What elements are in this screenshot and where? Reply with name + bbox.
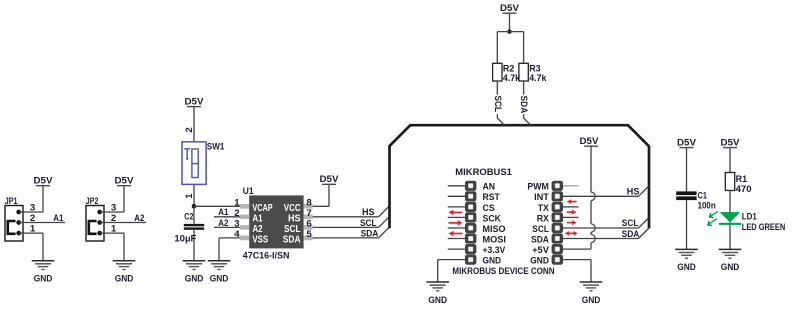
svg-text:D5V: D5V <box>185 96 205 107</box>
svg-text:A1: A1 <box>252 214 263 225</box>
svg-text:HS: HS <box>362 207 375 218</box>
svg-text:SDA: SDA <box>531 234 549 245</box>
svg-text:GND: GND <box>677 262 696 273</box>
svg-text:HS: HS <box>627 186 640 197</box>
svg-text:HS: HS <box>288 214 301 225</box>
svg-text:7: 7 <box>306 208 311 219</box>
svg-text:GND: GND <box>530 256 549 267</box>
svg-text:RX: RX <box>537 213 550 224</box>
svg-text:C2: C2 <box>184 212 193 223</box>
svg-text:PWM: PWM <box>527 182 549 193</box>
svg-text:MIKROBUS DEVICE CONN: MIKROBUS DEVICE CONN <box>452 266 554 277</box>
svg-text:SDA: SDA <box>283 235 301 246</box>
svg-text:GND: GND <box>721 262 740 273</box>
svg-text:47C16-I/SN: 47C16-I/SN <box>243 251 290 262</box>
svg-text:2: 2 <box>184 127 195 132</box>
svg-text:470: 470 <box>736 184 752 195</box>
svg-text:GND: GND <box>210 274 229 285</box>
svg-text:A1: A1 <box>53 213 64 224</box>
svg-text:GND: GND <box>185 274 204 285</box>
svg-text:GND: GND <box>428 295 447 306</box>
svg-text:RST: RST <box>483 192 500 203</box>
svg-text:D5V: D5V <box>320 174 340 185</box>
svg-text:VCAP: VCAP <box>252 203 273 214</box>
svg-text:8: 8 <box>306 198 312 209</box>
svg-text:SCL: SCL <box>492 96 503 113</box>
svg-text:5: 5 <box>306 229 312 240</box>
svg-text:LED GREEN: LED GREEN <box>742 222 785 233</box>
svg-text:SCL: SCL <box>622 218 639 229</box>
svg-text:GND: GND <box>115 274 134 285</box>
svg-text:D5V: D5V <box>721 137 741 148</box>
svg-text:MISO: MISO <box>483 224 506 235</box>
svg-text:GND: GND <box>34 274 53 285</box>
svg-text:A2: A2 <box>134 213 144 224</box>
svg-text:VCC: VCC <box>284 203 301 214</box>
svg-text:SCL: SCL <box>360 218 377 229</box>
svg-text:6: 6 <box>306 219 311 230</box>
svg-text:1: 1 <box>184 193 195 199</box>
svg-text:D5V: D5V <box>34 176 54 187</box>
svg-text:D5V: D5V <box>115 176 135 187</box>
svg-text:4.7k: 4.7k <box>503 73 521 84</box>
svg-text:CS: CS <box>483 203 496 214</box>
svg-text:SCL: SCL <box>532 224 549 235</box>
svg-text:GND: GND <box>582 295 601 306</box>
svg-text:A2: A2 <box>218 218 228 229</box>
svg-text:10µF: 10µF <box>174 234 196 245</box>
svg-text:MIKROBUS1: MIKROBUS1 <box>455 167 512 178</box>
svg-text:SCK: SCK <box>483 213 502 224</box>
svg-text:SW1: SW1 <box>207 141 225 152</box>
svg-text:D5V: D5V <box>500 3 520 14</box>
svg-text:TX: TX <box>538 203 550 214</box>
svg-text:A2: A2 <box>252 224 263 235</box>
svg-text:+5V: +5V <box>532 245 549 256</box>
svg-text:D5V: D5V <box>677 137 697 148</box>
svg-text:SDA: SDA <box>361 228 379 239</box>
svg-text:GND: GND <box>483 256 502 267</box>
svg-text:INT: INT <box>534 192 549 203</box>
svg-text:VSS: VSS <box>252 235 268 246</box>
svg-text:+3.3V: +3.3V <box>483 245 506 256</box>
svg-text:MOSI: MOSI <box>483 234 507 245</box>
svg-text:1: 1 <box>234 198 240 209</box>
svg-text:SDA: SDA <box>622 229 640 240</box>
svg-text:SDA: SDA <box>518 96 529 114</box>
svg-text:SCL: SCL <box>284 224 301 235</box>
svg-text:4.7k: 4.7k <box>529 73 547 84</box>
svg-text:A1: A1 <box>218 207 229 218</box>
svg-text:AN: AN <box>483 182 496 193</box>
svg-text:100n: 100n <box>698 201 716 212</box>
